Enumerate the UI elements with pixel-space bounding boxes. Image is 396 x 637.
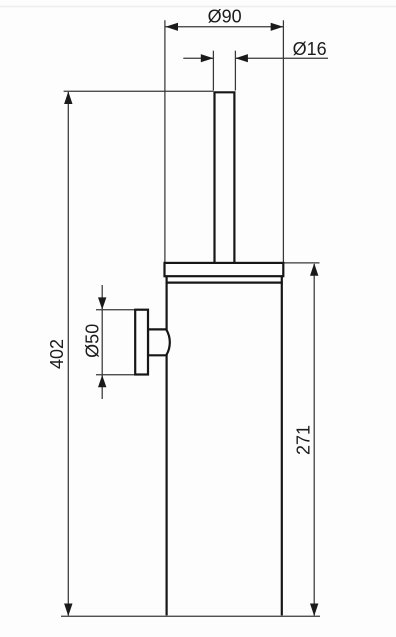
svg-text:Ø90: Ø90 — [208, 7, 242, 27]
svg-text:Ø16: Ø16 — [293, 39, 327, 59]
svg-text:Ø50: Ø50 — [83, 324, 103, 358]
svg-text:402: 402 — [47, 339, 67, 369]
svg-text:271: 271 — [294, 425, 314, 455]
